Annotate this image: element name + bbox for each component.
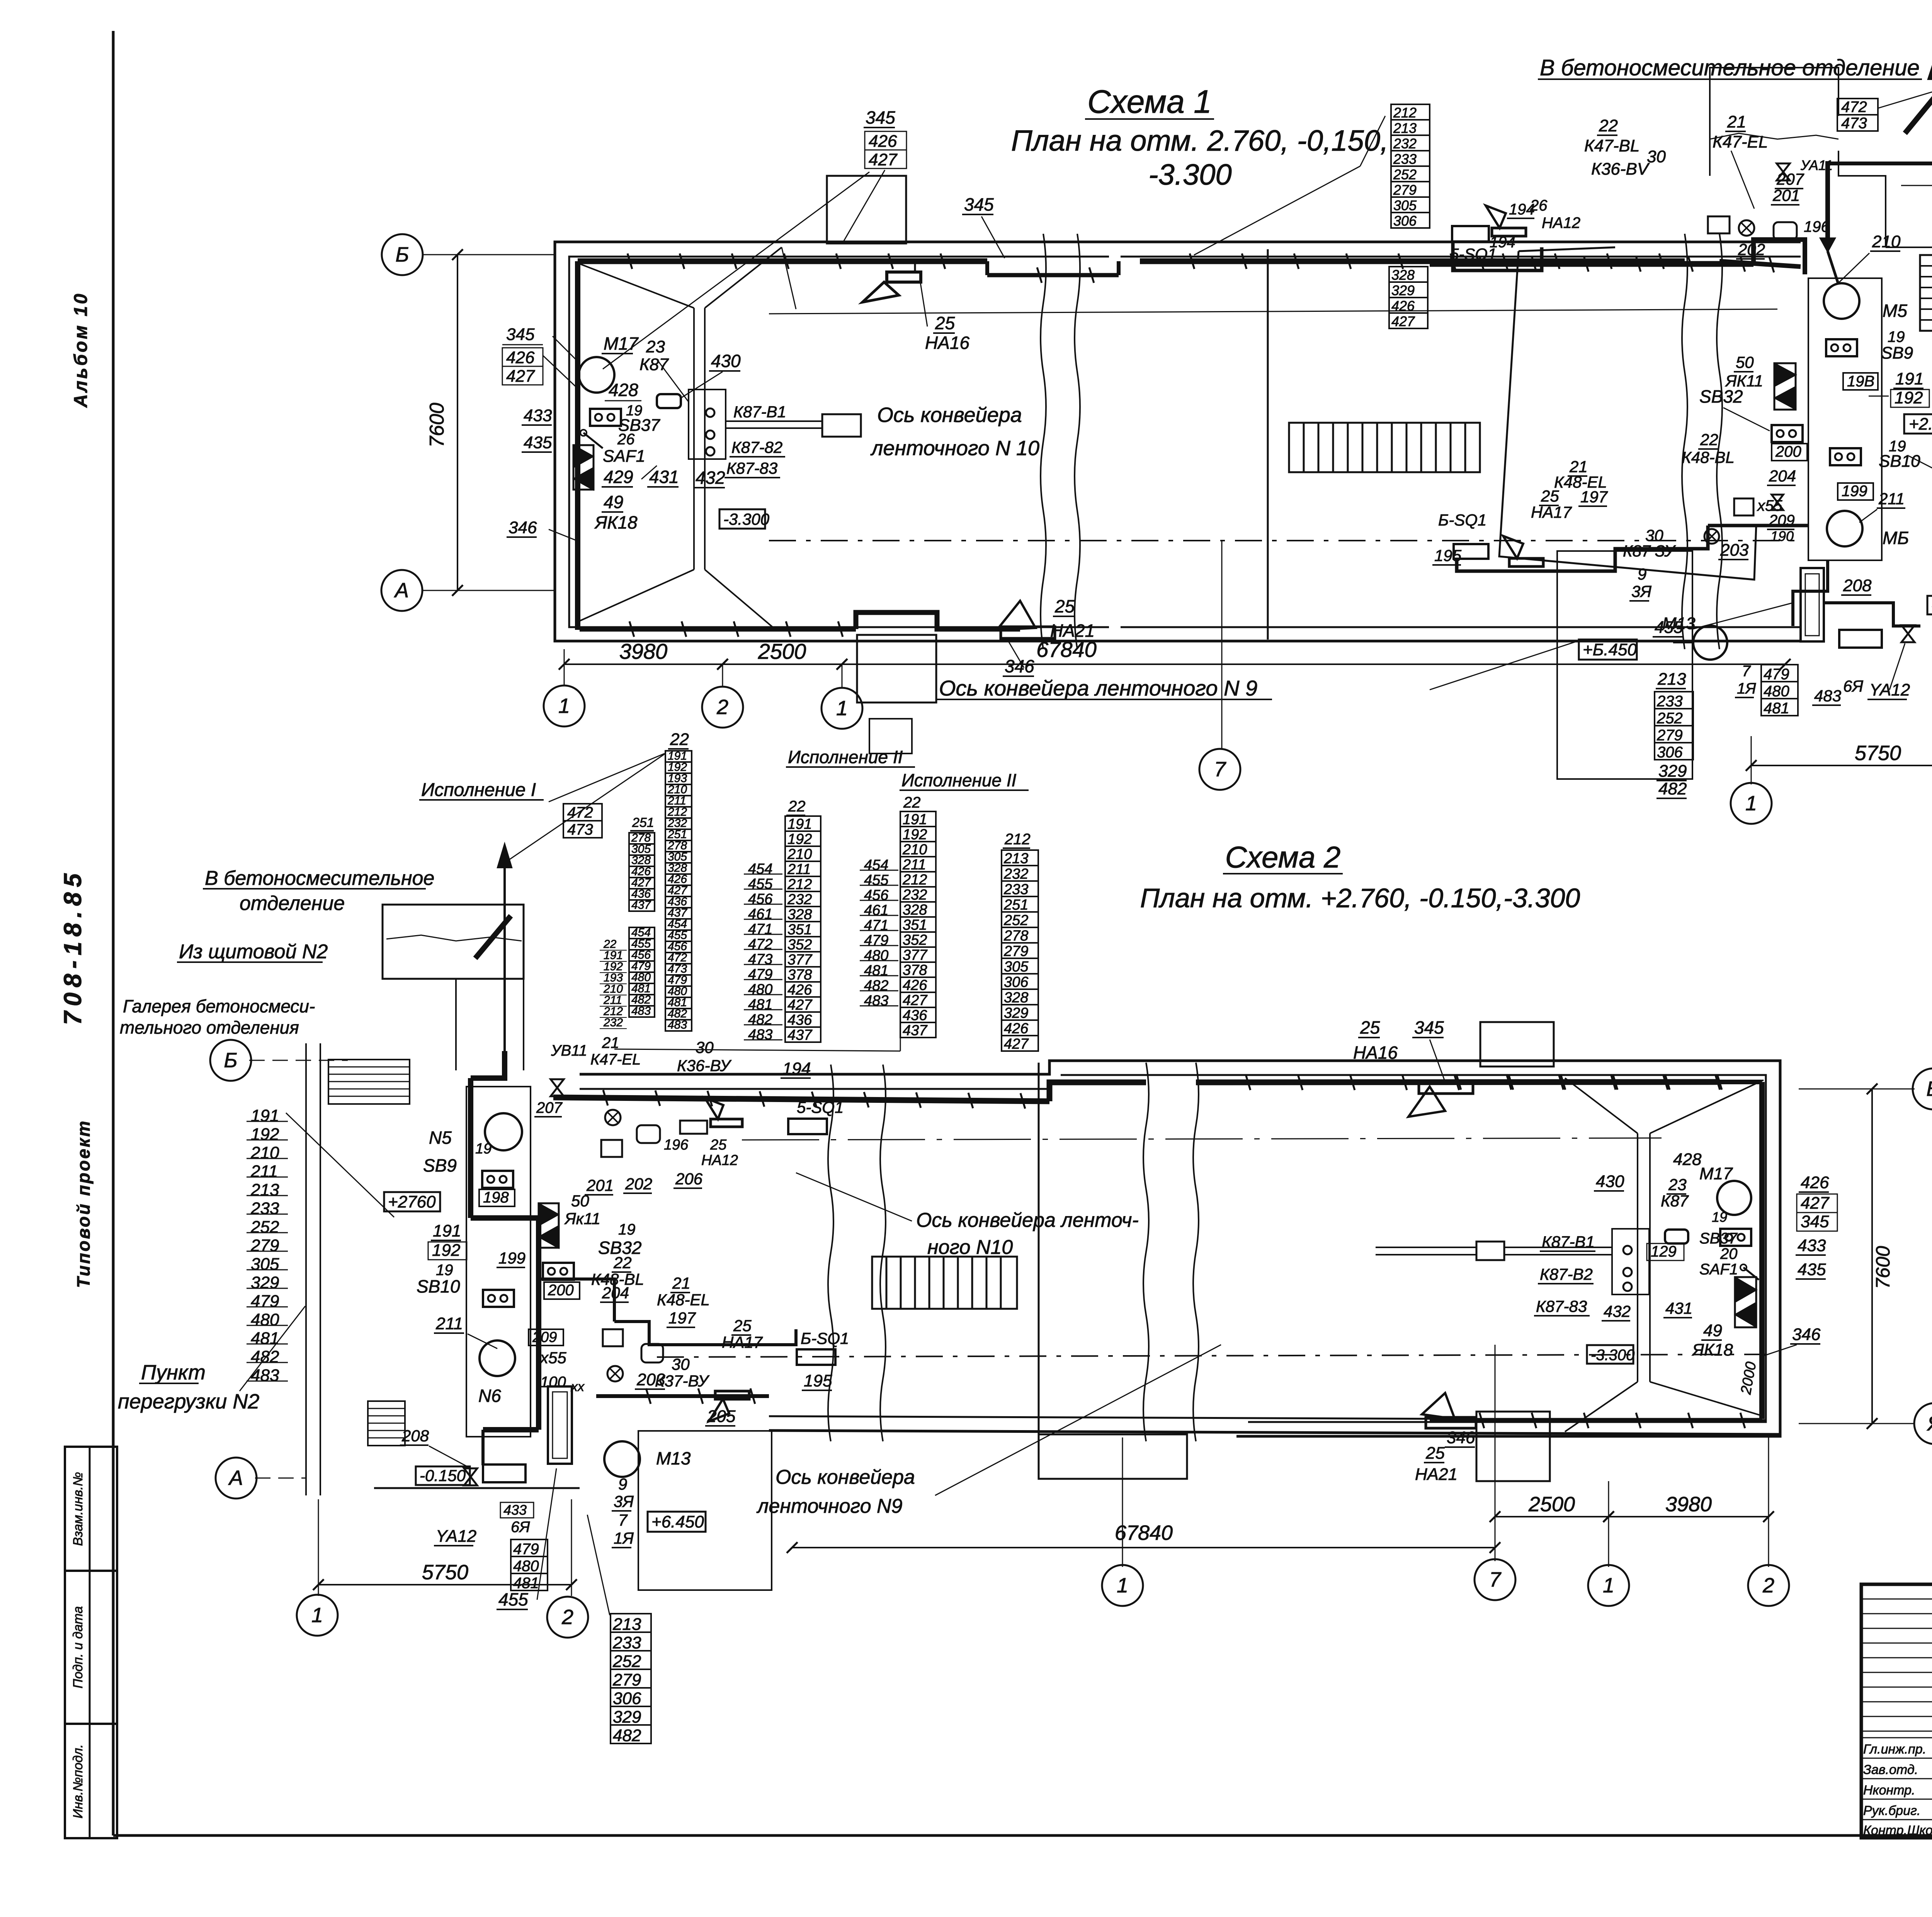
- svg-text:23: 23: [646, 337, 665, 356]
- svg-text:N6: N6: [478, 1386, 501, 1406]
- corridor bottom wall s2: [769, 1431, 1780, 1434]
- svg-text:1: 1: [1603, 1574, 1614, 1597]
- svg-text:454: 454: [864, 857, 888, 873]
- svg-text:213: 213: [250, 1180, 279, 1199]
- svg-text:483: 483: [668, 1019, 687, 1031]
- svg-text:329: 329: [1004, 1005, 1028, 1021]
- svg-text:К87-83: К87-83: [726, 459, 777, 477]
- title block main outline: [1861, 1584, 1932, 1838]
- svg-text:483: 483: [748, 1027, 772, 1043]
- feeder arrow s2: [503, 846, 506, 1051]
- svg-text:М5: М5: [1883, 301, 1907, 321]
- svg-text:197: 197: [668, 1309, 696, 1327]
- svg-text:480: 480: [1764, 683, 1789, 700]
- svg-text:3980: 3980: [619, 639, 668, 663]
- svg-text:211: 211: [902, 857, 926, 873]
- svg-text:26: 26: [617, 431, 635, 448]
- svg-text:22: 22: [903, 794, 921, 811]
- svg-text:197: 197: [1580, 488, 1608, 506]
- svg-text:430: 430: [711, 351, 741, 371]
- svg-text:426: 426: [787, 982, 812, 998]
- elevation +6.450: [1579, 640, 1637, 660]
- svg-text:30: 30: [696, 1038, 714, 1056]
- svg-text:433: 433: [1798, 1236, 1826, 1255]
- svg-text:481: 481: [748, 997, 772, 1013]
- svg-text:Б: Б: [224, 1049, 237, 1072]
- svg-text:456: 456: [748, 891, 773, 907]
- svg-text:210: 210: [1872, 232, 1901, 251]
- box YAK18 s2: [1735, 1277, 1757, 1302]
- svg-text:49: 49: [1703, 1321, 1722, 1340]
- svg-text:213: 213: [1657, 670, 1686, 689]
- svg-text:19: 19: [1712, 1209, 1727, 1225]
- svg-text:233: 233: [250, 1199, 279, 1218]
- pushbtn 196: [1708, 216, 1730, 233]
- svg-text:3980: 3980: [1665, 1493, 1712, 1516]
- cable riser s2: [471, 1051, 505, 1078]
- svg-text:-3.300: -3.300: [1148, 158, 1232, 191]
- svg-text:306: 306: [1657, 744, 1683, 761]
- svg-text:НА17: НА17: [1531, 503, 1572, 521]
- svg-text:+6.450: +6.450: [651, 1512, 704, 1531]
- svg-text:УА11: УА11: [1800, 157, 1833, 173]
- svg-text:YA12: YA12: [436, 1527, 476, 1546]
- elevation -0.150: [1927, 596, 1932, 614]
- sheet frame bottom border: [113, 1834, 1932, 1837]
- svg-text:194: 194: [1509, 201, 1535, 218]
- svg-text:426: 426: [869, 132, 897, 151]
- svg-text:SAF1: SAF1: [603, 447, 645, 466]
- svg-text:ного N10: ного N10: [927, 1236, 1013, 1259]
- svg-text:345: 345: [506, 325, 535, 344]
- svg-text:427: 427: [787, 997, 813, 1013]
- svg-text:482: 482: [251, 1347, 279, 1366]
- bottom opening box mid s2: [1039, 1434, 1187, 1479]
- svg-text:345: 345: [866, 107, 895, 128]
- svg-text:211: 211: [1878, 490, 1905, 508]
- svg-text:Взам.инв.№: Взам.инв.№: [71, 1472, 85, 1546]
- dim 7600 vertical s2: [1871, 1089, 1873, 1424]
- svg-text:480: 480: [513, 1558, 539, 1575]
- svg-text:351: 351: [787, 922, 812, 938]
- svg-text:2500: 2500: [1528, 1493, 1575, 1516]
- svg-text:Исполнение II: Исполнение II: [788, 747, 903, 767]
- svg-text:22: 22: [1700, 430, 1718, 449]
- svg-text:346: 346: [509, 518, 537, 537]
- svg-text:212: 212: [1393, 105, 1417, 121]
- svg-text:426: 426: [1004, 1021, 1029, 1037]
- svg-text:329: 329: [1391, 282, 1415, 298]
- svg-text:429: 429: [604, 467, 633, 487]
- box YAK11 s2: [539, 1203, 559, 1226]
- svg-text:1: 1: [311, 1604, 323, 1627]
- sheet frame left border: [112, 31, 115, 1835]
- svg-text:К48-ВL: К48-ВL: [1682, 448, 1735, 466]
- tall device rect: [1801, 568, 1824, 641]
- svg-text:427: 427: [869, 150, 898, 169]
- svg-text:480: 480: [251, 1310, 279, 1329]
- svg-text:7: 7: [1489, 1568, 1502, 1591]
- gallery outline s2: [383, 905, 524, 979]
- svg-text:К36-ВУ: К36-ВУ: [677, 1056, 732, 1075]
- svg-text:252: 252: [1393, 167, 1417, 182]
- wall vertical s2: [305, 1043, 307, 1495]
- svg-text:К87-83: К87-83: [1536, 1297, 1587, 1315]
- motor M5 s2: [485, 1113, 522, 1150]
- big rect s2: [638, 1431, 772, 1590]
- svg-text:191: 191: [787, 816, 812, 832]
- cable bottom to valve YA12: [1824, 603, 1920, 626]
- svg-text:454: 454: [748, 861, 772, 877]
- svg-text:49: 49: [604, 492, 623, 512]
- wire down group: [1793, 560, 1828, 626]
- svg-text:708-18.85: 708-18.85: [59, 868, 87, 1025]
- svg-text:203: 203: [1720, 541, 1749, 560]
- switch 6-SQ1: [1454, 544, 1488, 559]
- horn HA16: [887, 272, 921, 282]
- pushbutton SB37 s2: [1720, 1229, 1751, 1246]
- axis circle A: [381, 570, 422, 611]
- svg-text:тельного отделения: тельного отделения: [120, 1017, 299, 1038]
- bottom list s2: [611, 1614, 651, 1632]
- svg-text:233: 233: [1393, 151, 1417, 167]
- svg-text:2: 2: [716, 696, 728, 719]
- elevation -0.150 s2: [416, 1466, 470, 1485]
- svg-text:473: 473: [567, 821, 593, 838]
- svg-text:А: А: [228, 1466, 243, 1490]
- svg-text:22: 22: [788, 798, 806, 815]
- svg-text:432: 432: [696, 468, 725, 488]
- device box 483: [1839, 630, 1882, 648]
- svg-text:306: 306: [613, 1689, 641, 1708]
- stairs assembly: [1920, 255, 1932, 331]
- svg-text:Контр.Шкот: Контр.Шкот: [1863, 1823, 1932, 1838]
- svg-text:252: 252: [250, 1218, 279, 1237]
- floor line s2: [374, 1487, 580, 1489]
- svg-text:Нконтр.: Нконтр.: [1863, 1783, 1915, 1798]
- svg-text:437: 437: [631, 899, 651, 912]
- svg-text:427: 427: [1391, 313, 1415, 329]
- svg-text:+2760: +2760: [388, 1192, 436, 1211]
- svg-text:-0.150: -0.150: [420, 1466, 466, 1485]
- svg-text:7600: 7600: [1872, 1246, 1894, 1289]
- svg-text:К48-EL: К48-EL: [657, 1291, 710, 1309]
- svg-text:427: 427: [1801, 1194, 1830, 1213]
- svg-text:483: 483: [251, 1366, 279, 1385]
- motor M6 s2: [480, 1340, 515, 1376]
- svg-text:К47-BL: К47-BL: [1584, 136, 1639, 155]
- column circle 2 right s2: [1748, 1565, 1789, 1606]
- relay box 430: [657, 394, 681, 408]
- valve YA11: [1777, 163, 1790, 180]
- svg-text:НА12: НА12: [1542, 214, 1580, 231]
- svg-text:25: 25: [1360, 1017, 1380, 1038]
- column circle 2 s2: [547, 1597, 588, 1638]
- svg-text:План на отм. +2.760, -0.150,-3: План на отм. +2.760, -0.150,-3.300: [1140, 883, 1580, 913]
- svg-text:278: 278: [1003, 928, 1028, 944]
- horn HA12 s2: [711, 1119, 742, 1127]
- tall device rect s2: [548, 1386, 572, 1464]
- svg-text:отделение: отделение: [240, 892, 345, 915]
- svg-text:191: 191: [1895, 369, 1923, 388]
- wire riser to gallery: [1825, 161, 1830, 238]
- column circle 1b: [842, 664, 843, 687]
- elevation -3.300 s2: [1587, 1345, 1633, 1364]
- svg-text:Пункт: Пункт: [141, 1361, 206, 1384]
- svg-text:232: 232: [787, 891, 812, 908]
- svg-text:251: 251: [632, 815, 654, 830]
- svg-text:345: 345: [1414, 1017, 1444, 1038]
- svg-text:455: 455: [748, 876, 773, 892]
- svg-text:233: 233: [612, 1633, 641, 1652]
- svg-text:426: 426: [506, 348, 535, 367]
- stand column rect s2: [466, 1087, 531, 1437]
- svg-text:473: 473: [1841, 115, 1867, 132]
- svg-text:433: 433: [524, 406, 552, 425]
- big rect below: [1557, 551, 1692, 779]
- boxed 472 473: [1837, 99, 1878, 115]
- svg-text:483: 483: [864, 993, 888, 1009]
- svg-text:Я: Я: [1927, 1412, 1932, 1435]
- svg-text:К37-ВУ: К37-ВУ: [655, 1372, 710, 1390]
- svg-text:199: 199: [498, 1249, 526, 1267]
- svg-text:1Я: 1Я: [1737, 680, 1756, 697]
- svg-text:НА17: НА17: [722, 1333, 763, 1351]
- svg-text:ЯК18: ЯК18: [594, 512, 638, 532]
- svg-text:232: 232: [603, 1016, 623, 1029]
- svg-text:212: 212: [787, 876, 812, 893]
- small boxes s2 row1: [601, 1140, 622, 1157]
- cable list colA: [665, 751, 692, 762]
- svg-text:Зав.отд.: Зав.отд.: [1863, 1762, 1918, 1777]
- svg-text:Б-SQ1: Б-SQ1: [801, 1329, 849, 1347]
- svg-text:5-SQ1: 5-SQ1: [797, 1098, 844, 1116]
- svg-text:206: 206: [675, 1170, 703, 1188]
- svg-text:232: 232: [1003, 866, 1028, 882]
- svg-text:211: 211: [787, 861, 811, 878]
- svg-text:204: 204: [1769, 467, 1796, 485]
- horn HA12 small: [1492, 228, 1526, 236]
- svg-text:232: 232: [902, 887, 927, 903]
- svg-text:483: 483: [631, 1005, 651, 1017]
- svg-text:Б: Б: [395, 243, 409, 266]
- svg-text:210: 210: [250, 1143, 279, 1162]
- svg-text:22: 22: [1599, 116, 1618, 135]
- svg-text:1: 1: [836, 697, 848, 720]
- svg-text:Схема 2: Схема 2: [1225, 840, 1341, 874]
- svg-text:431: 431: [1665, 1299, 1692, 1317]
- valve YA12 s2: [464, 1468, 477, 1485]
- svg-text:482: 482: [1658, 779, 1687, 798]
- elevation +2.760: [1904, 414, 1932, 434]
- conveyor block s2: [1476, 1242, 1504, 1260]
- assembly outline: [1499, 251, 1756, 580]
- svg-text:5750: 5750: [1855, 742, 1901, 765]
- corridor bottom wall scheme1: [1121, 640, 1801, 643]
- roof envelope diagonals: [577, 263, 694, 308]
- cable top s2: [553, 1097, 1049, 1101]
- svg-text:430: 430: [1596, 1172, 1624, 1191]
- svg-text:К47-EL: К47-EL: [590, 1051, 641, 1068]
- pushbutton SB10 s2: [483, 1290, 514, 1307]
- column circle 1 right s2: [1588, 1565, 1629, 1606]
- cable drop left wall: [575, 261, 580, 630]
- pushbutton SB9 s2: [482, 1171, 513, 1188]
- svg-text:19: 19: [1888, 328, 1905, 345]
- svg-text:200: 200: [1775, 443, 1801, 460]
- svg-text:ленточного N 10: ленточного N 10: [870, 437, 1039, 460]
- svg-text:50: 50: [1736, 353, 1754, 371]
- small boxes s2 row2: [603, 1329, 623, 1346]
- roof envelope s2: [1637, 1133, 1638, 1382]
- svg-text:НА16: НА16: [1353, 1043, 1398, 1063]
- svg-text:279: 279: [1393, 182, 1417, 198]
- stairs hatch scheme1: [1289, 423, 1480, 472]
- cluster connector lines: [506, 754, 665, 862]
- labels 429 431 432 K87 s2: [1647, 1243, 1684, 1260]
- motor M17: [579, 357, 614, 393]
- leader to plan: [1360, 116, 1385, 166]
- svg-text:305: 305: [251, 1255, 279, 1274]
- svg-text:НА12: НА12: [701, 1152, 738, 1169]
- svg-text:1Я: 1Я: [614, 1529, 634, 1547]
- svg-text:Исполнение II: Исполнение II: [901, 770, 1017, 790]
- svg-text:7: 7: [1742, 663, 1751, 680]
- cable list column 328-427: [1389, 267, 1428, 282]
- svg-text:5-SQ1: 5-SQ1: [1450, 245, 1497, 263]
- wall outline s2 head: [1236, 1061, 1780, 1436]
- svg-text:22: 22: [670, 730, 689, 749]
- svg-text:SB37: SB37: [1699, 1230, 1738, 1247]
- small parts row2: [1734, 498, 1753, 515]
- svg-text:378: 378: [787, 967, 812, 983]
- motor M17 s2: [1717, 1181, 1751, 1215]
- device box s2: [483, 1465, 526, 1482]
- horn HA21 s2: [1422, 1393, 1455, 1419]
- switch 5-SQ1: [1452, 226, 1489, 242]
- dim 5750 s2: [318, 1584, 571, 1585]
- svg-text:Галерея бетоносмеси-: Галерея бетоносмеси-: [123, 996, 315, 1016]
- svg-text:351: 351: [903, 917, 927, 933]
- svg-text:К87-82: К87-82: [731, 438, 782, 456]
- svg-text:192: 192: [903, 827, 927, 843]
- svg-text:205: 205: [707, 1407, 736, 1426]
- column circle 1: [564, 649, 565, 685]
- svg-text:В бетоносмесительное: В бетоносмесительное: [205, 867, 434, 890]
- pushbutton SB37: [590, 409, 621, 426]
- svg-text:9: 9: [618, 1475, 627, 1493]
- svg-text:428: 428: [609, 380, 638, 400]
- svg-text:455: 455: [1655, 618, 1683, 637]
- svg-text:427: 427: [506, 367, 535, 386]
- svg-text:190: 190: [1770, 528, 1794, 544]
- svg-text:2500: 2500: [758, 639, 806, 663]
- svg-text:455: 455: [864, 872, 889, 888]
- valve s2 top: [551, 1079, 564, 1096]
- svg-text:328: 328: [1391, 267, 1415, 283]
- svg-text:481: 481: [864, 963, 888, 979]
- svg-text:210: 210: [902, 842, 927, 858]
- svg-text:25: 25: [935, 313, 955, 333]
- svg-text:306: 306: [1004, 974, 1029, 990]
- svg-text:479: 479: [864, 932, 888, 949]
- column circle 1 s2: [297, 1595, 338, 1636]
- svg-text:329: 329: [613, 1708, 641, 1726]
- svg-text:232: 232: [1393, 136, 1417, 151]
- svg-text:30: 30: [1647, 147, 1666, 166]
- cable run top scheme1: [578, 259, 987, 264]
- motor M13 s2: [604, 1441, 640, 1477]
- switch 5-SQ1 s2: [788, 1119, 827, 1134]
- plan break lines s2: [828, 1065, 833, 1441]
- svg-text:1: 1: [1117, 1574, 1128, 1597]
- svg-text:196: 196: [664, 1137, 689, 1153]
- section line scheme1: [1267, 249, 1269, 640]
- svg-text:А: А: [394, 579, 409, 602]
- svg-text:191: 191: [433, 1221, 461, 1240]
- svg-text:Исполнение I: Исполнение I: [421, 780, 536, 800]
- svg-text:435: 435: [524, 433, 552, 452]
- svg-text:25: 25: [1054, 596, 1075, 616]
- svg-text:21: 21: [1727, 112, 1746, 131]
- svg-text:Рук.бриг.: Рук.бриг.: [1863, 1803, 1920, 1818]
- svg-text:SB10: SB10: [417, 1276, 460, 1296]
- svg-text:279: 279: [1656, 727, 1683, 744]
- svg-text:252: 252: [612, 1652, 641, 1671]
- svg-text:481: 481: [1764, 700, 1789, 717]
- svg-text:М17: М17: [1699, 1164, 1733, 1183]
- corridor top wall scheme1: [1121, 241, 1801, 243]
- svg-text:30: 30: [672, 1355, 690, 1373]
- svg-text:201: 201: [1772, 186, 1800, 204]
- svg-text:279: 279: [250, 1236, 279, 1255]
- boxed 472 473 s2: [563, 804, 602, 821]
- pushbutton SB9: [1826, 339, 1857, 356]
- svg-text:перегрузки N2: перегрузки N2: [118, 1390, 259, 1413]
- svg-text:461: 461: [864, 902, 888, 919]
- svg-text:21: 21: [602, 1034, 619, 1051]
- svg-text:428: 428: [1673, 1150, 1702, 1169]
- svg-text:212: 212: [902, 872, 927, 888]
- column circle 7 s2: [1475, 1559, 1515, 1600]
- svg-text:191: 191: [251, 1106, 279, 1125]
- cable bottom s2: [596, 1394, 769, 1398]
- svg-text:480: 480: [748, 981, 772, 998]
- cable run bottom jog: [580, 627, 856, 632]
- svg-text:192: 192: [432, 1241, 460, 1260]
- dimension line bottom scheme1: [564, 663, 723, 665]
- dimension 7600 vertical: [457, 255, 458, 590]
- pushbutton SB10: [1830, 448, 1861, 465]
- lamp s2: [605, 1110, 621, 1125]
- svg-text:УВ11: УВ11: [551, 1042, 587, 1059]
- top opening box s2: [1480, 1022, 1554, 1067]
- terminal block K87: [689, 390, 726, 459]
- motor M5: [1824, 283, 1859, 319]
- svg-text:+Б.450: +Б.450: [1583, 640, 1637, 659]
- svg-text:6Я: 6Я: [511, 1519, 530, 1536]
- column circle 1 mid s2: [1102, 1565, 1143, 1606]
- svg-text:Подп. и дата: Подп. и дата: [71, 1606, 85, 1689]
- svg-text:427: 427: [903, 992, 928, 1009]
- svg-text:209: 209: [532, 1329, 557, 1345]
- svg-text:-3.300: -3.300: [1591, 1347, 1634, 1364]
- svg-text:19В: 19В: [1847, 373, 1874, 390]
- axis circle B s2: [210, 1040, 251, 1081]
- svg-text:305: 305: [1004, 959, 1029, 975]
- svg-text:SB10: SB10: [1879, 452, 1920, 471]
- svg-text:6Я: 6Я: [1843, 677, 1863, 695]
